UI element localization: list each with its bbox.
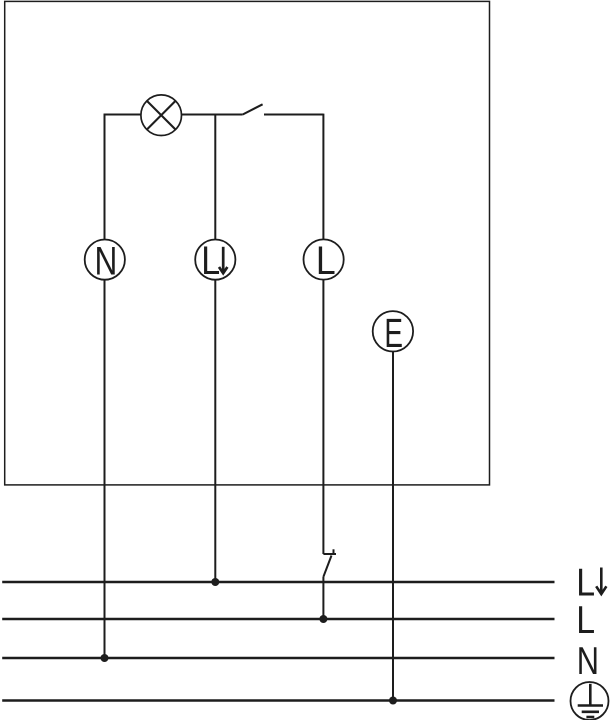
svg-text:E: E: [384, 311, 403, 357]
wire N vertical upper: [104, 114, 106, 240]
switch S2: [323, 549, 336, 576]
bus PE: [2, 699, 554, 701]
terminal N: [85, 238, 125, 283]
svg-text:L: L: [576, 598, 595, 642]
junction L-switched bus: [211, 578, 219, 586]
wire top-left horizontal from N drop to lamp: [104, 114, 141, 116]
enclosure box: [5, 1, 490, 485]
earth symbol: [571, 682, 609, 720]
junction PE bus: [389, 697, 397, 705]
wire L-switched vertical upper: [214, 115, 216, 240]
svg-text:N: N: [577, 640, 599, 683]
switch S1 blade: [243, 104, 263, 114]
svg-text:N: N: [94, 238, 117, 283]
terminal L: [304, 239, 344, 283]
terminal L-switched: [195, 237, 235, 282]
wire L below switch S2: [322, 577, 324, 620]
wire lamp to switch S1: [182, 114, 243, 116]
terminal E: [373, 311, 413, 357]
bus N: [2, 657, 554, 659]
wire E vertical: [392, 352, 394, 701]
bus L-switched: [2, 581, 554, 583]
wire N vertical lower: [104, 280, 106, 658]
junction N bus: [101, 654, 109, 662]
svg-text:L: L: [316, 239, 336, 283]
wire L vertical upper: [322, 114, 324, 239]
wire switch S1 to corner: [264, 114, 323, 116]
bus L: [2, 618, 554, 620]
wire L vertical lower to switch S2: [322, 280, 324, 554]
junction L bus: [319, 615, 327, 623]
lamp E1: [141, 95, 182, 136]
svg-text:L: L: [201, 237, 220, 282]
label L-switched: [576, 560, 606, 604]
wire L-switched vertical lower: [214, 280, 216, 582]
